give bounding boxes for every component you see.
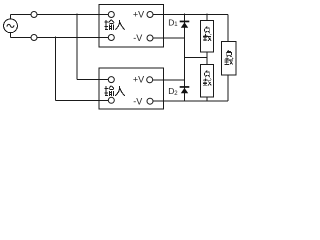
- load box A: [201, 21, 214, 52]
- wire right rail lower (load B bottom): [227, 75, 229, 101]
- wire top from source: [11, 15, 109, 19]
- wire bottom rail -V psu2: [153, 100, 228, 102]
- label 负载 load B: [224, 50, 233, 64]
- label D1: [168, 18, 178, 29]
- wire bottom from source: [11, 33, 109, 38]
- psu2 input terminal 2: [108, 97, 114, 103]
- diode D1: [180, 21, 190, 28]
- wire +V psu1 to top-right rail: [153, 14, 228, 16]
- svg-text:-V: -V: [133, 96, 142, 106]
- wire load A top drop: [206, 14, 208, 21]
- label 负载 load A: [203, 27, 212, 41]
- psu2 +V terminal: [147, 77, 153, 83]
- psu1 input terminal 2: [108, 35, 114, 41]
- load box B: [222, 42, 237, 76]
- load box C: [201, 65, 214, 97]
- wire load A bottom / load C top link: [206, 52, 208, 65]
- label D2: [168, 86, 178, 97]
- psu2 -V terminal: [147, 98, 153, 104]
- psu1 +V terminal: [147, 12, 153, 18]
- wire midpoint vertical: [184, 14, 186, 102]
- svg-text:+V: +V: [133, 75, 144, 85]
- svg-text:+V: +V: [133, 9, 144, 19]
- wire branch to psu2 input 2: [56, 37, 109, 101]
- wire +V psu2 to midpoint: [153, 79, 185, 81]
- terminal bottom wire: [31, 35, 37, 41]
- label 输入 psu2: [104, 86, 124, 96]
- wire branch to psu2 input 1: [77, 14, 108, 80]
- psu1 box: [99, 5, 164, 48]
- wire right rail upper (to load B top): [227, 15, 229, 42]
- ac source V1: [4, 19, 18, 33]
- label 输入 psu1: [104, 20, 124, 30]
- psu2 box: [99, 68, 164, 109]
- terminal top wire: [31, 12, 37, 18]
- label 负载 load C: [203, 71, 212, 86]
- wire load C bottom drop: [206, 97, 208, 101]
- diode D2: [180, 86, 190, 93]
- psu1 -V terminal: [147, 35, 153, 41]
- svg-text:-V: -V: [133, 33, 142, 43]
- psu2 input terminal 1: [108, 77, 114, 83]
- psu1 input terminal 1: [108, 12, 114, 18]
- wire midpoint link to loads: [185, 57, 208, 59]
- wire -V psu1 to midpoint: [153, 37, 185, 39]
